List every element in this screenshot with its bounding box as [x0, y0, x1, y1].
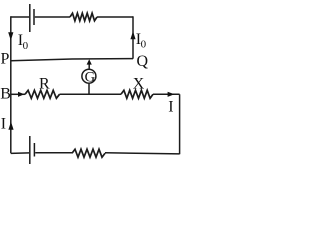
wire right vertical top loop: [132, 16, 134, 58]
svg-text:I: I: [168, 98, 173, 115]
svg-text:I: I: [1, 115, 6, 132]
wire top middle horizontal: [35, 16, 70, 18]
wire B row right segment: [153, 93, 180, 95]
arrowhead up at top of galvanometer branch: [87, 59, 92, 64]
wire bottom middle horizontal: [35, 152, 72, 154]
svg-text:P: P: [1, 51, 10, 68]
arrowhead right at right end of B row: [168, 92, 175, 97]
svg-text:B: B: [0, 86, 11, 103]
galvanometer circle G: [82, 69, 96, 83]
svg-text:X: X: [133, 75, 145, 92]
galvanometer branch upper shaft: [88, 62, 90, 69]
arrowhead I up on left vertical below B: [8, 122, 13, 130]
svg-text:0: 0: [23, 40, 29, 52]
battery top cell plates: [30, 4, 34, 32]
resistor top (unlabeled): [70, 13, 97, 21]
arrowhead right after B on B row: [18, 92, 24, 97]
resistor R: [25, 90, 60, 98]
svg-text:Q: Q: [137, 53, 149, 70]
wire B row middle segment: [60, 93, 122, 95]
battery bottom cell plates: [30, 136, 35, 164]
svg-text:0: 0: [141, 39, 147, 51]
arrowhead I0 up on right vertical: [130, 31, 135, 39]
arrowhead I0 down on left vertical: [8, 32, 13, 40]
wire left vertical: [10, 16, 12, 153]
wire B row horizontal: [11, 93, 25, 95]
wire right vertical bottom loop: [179, 94, 181, 154]
wire top right horizontal: [97, 16, 133, 18]
resistor X: [121, 90, 153, 98]
wire P to Q horizontal: [11, 59, 133, 61]
galvanometer branch lower shaft: [88, 84, 90, 95]
wire bottom right horizontal: [105, 153, 180, 154]
wire bottom left horizontal: [11, 152, 29, 155]
svg-text:G: G: [85, 69, 96, 85]
svg-text:R: R: [39, 75, 50, 92]
resistor bottom (unlabeled): [72, 149, 105, 157]
wire top left horizontal: [11, 16, 29, 18]
